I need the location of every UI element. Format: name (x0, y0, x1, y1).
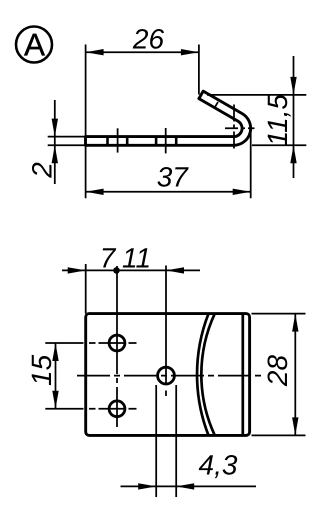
svg-text:11: 11 (122, 242, 151, 273)
hole H3 middle 4,3 (158, 367, 175, 384)
dimension line 37 (86, 191, 251, 193)
dimension dot 7/11 junction (113, 267, 120, 274)
arrowhead 26 right (181, 49, 199, 55)
extension line 28 top (252, 313, 306, 315)
part U1 plate outline (plan view) (86, 314, 250, 436)
dimension line 26 (86, 51, 199, 53)
inner bend silhouette line (plan view) (241, 314, 244, 436)
arrowhead 37 left (86, 189, 104, 195)
svg-text:11,5: 11,5 (262, 94, 293, 147)
arrowhead 2 top (52, 119, 58, 137)
arrowhead 4,3 right outside (176, 483, 194, 489)
arrowhead 28 bottom (292, 417, 298, 435)
arrowhead 26 left (86, 49, 104, 55)
svg-text:7: 7 (100, 242, 117, 273)
hole edge line (left holes, right edge, side view) (126, 138, 129, 145)
extension line left (26/37) (85, 45, 87, 199)
bend center vertical centerline (233, 105, 235, 149)
part U1 hook profile outline (side view) (86, 91, 251, 145)
extension line 15 top (45, 342, 83, 344)
hook tip silhouette arc outer (plan view) (197, 314, 208, 436)
extension line 15 bottom (45, 408, 83, 410)
hole H2 lower-left (109, 401, 125, 417)
arrowhead 7 left outside (68, 267, 86, 273)
centerline middle hole (side view) (165, 128, 167, 153)
centerline left holes vertical (116, 266, 118, 427)
svg-text:37: 37 (157, 162, 190, 193)
svg-text:28: 28 (262, 355, 293, 388)
svg-text:4,3: 4,3 (199, 449, 238, 480)
extension line 4,3 right (hole edge) (175, 385, 177, 497)
extension line 4,3 left (hole edge) (155, 385, 157, 497)
view label circle A (16, 27, 52, 63)
arrowhead 15 top (52, 343, 58, 361)
centerline hole H1 horizontal (89, 342, 137, 344)
dimension line 7 / 11 (62, 269, 200, 271)
extension line 2 bottom (48, 144, 85, 146)
arrowhead 11,5 bottom (290, 145, 296, 163)
hook tip silhouette arc inner (plan view) (201, 314, 214, 436)
centerline left holes (side view) (117, 128, 119, 152)
bend center horizontal centerline (225, 127, 255, 129)
extension line 2 top (48, 136, 85, 138)
arrowhead 11,5 top (290, 77, 296, 95)
centerline hole H3 horizontal (77, 375, 261, 377)
extension line 28 bottom (252, 434, 306, 436)
arrowhead 4,3 left outside (138, 483, 156, 489)
centerline hole H2 horizontal (89, 408, 137, 410)
svg-text:A: A (24, 27, 45, 63)
hole edge line (left holes, left edge, side view) (106, 138, 109, 145)
dimension line 2 (54, 100, 56, 184)
extension line plate left edge (7) (85, 264, 87, 314)
dimension line 4,3 (121, 485, 257, 487)
extension line bend right (37) (250, 126, 252, 199)
arrowhead 37 right (233, 189, 251, 195)
arrowhead 2 bottom (52, 145, 58, 163)
extension line hook tip (26) (198, 45, 200, 95)
extension line 11,5 bottom (252, 144, 306, 146)
hole edge line (middle hole, left edge, side view) (155, 138, 158, 145)
dimension line 28 (294, 314, 296, 436)
dimension line 11,5 (293, 56, 295, 178)
hole edge line (middle hole, right edge, side view) (175, 138, 178, 145)
arrowhead 15 bottom (52, 391, 58, 409)
arrowhead 11 right outside (166, 267, 184, 273)
svg-text:15: 15 (26, 354, 57, 386)
dimension line 15 (55, 343, 57, 409)
svg-text:2: 2 (27, 162, 58, 179)
svg-text:26: 26 (132, 23, 165, 54)
arrowhead 28 top (292, 314, 298, 332)
hole H1 upper-left (109, 335, 125, 351)
centerline hole H3 vertical (165, 266, 167, 397)
bend tangent tick on flange (214, 102, 218, 109)
extension line 11,5 top (207, 94, 306, 96)
